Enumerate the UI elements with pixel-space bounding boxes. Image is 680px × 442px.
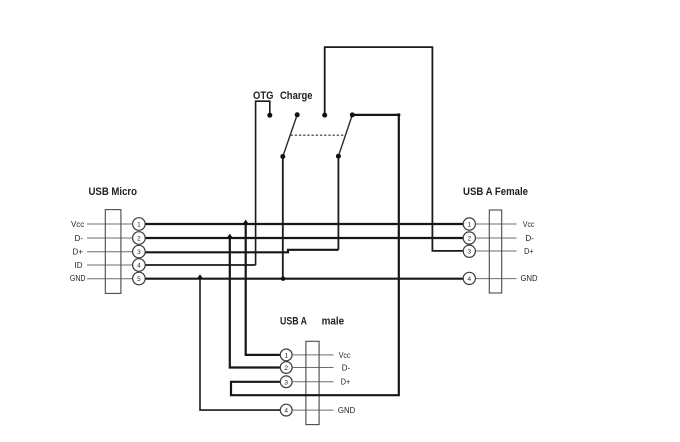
- svg-text:2: 2: [467, 236, 471, 243]
- svg-text:1: 1: [137, 222, 141, 229]
- svg-text:Charge: Charge: [280, 90, 313, 102]
- svg-text:D-: D-: [525, 234, 534, 243]
- svg-text:4: 4: [137, 263, 141, 270]
- svg-text:GND: GND: [338, 406, 356, 415]
- svg-text:USB Micro: USB Micro: [89, 186, 138, 198]
- svg-text:D+: D+: [73, 247, 84, 256]
- svg-text:USB A: USB A: [280, 316, 307, 328]
- svg-text:Vcc: Vcc: [523, 220, 534, 229]
- svg-text:Vcc: Vcc: [71, 220, 84, 229]
- svg-text:D+: D+: [524, 247, 534, 256]
- svg-text:USB A Female: USB A Female: [463, 186, 528, 198]
- svg-text:3: 3: [284, 379, 288, 386]
- svg-text:2: 2: [137, 236, 141, 243]
- svg-text:D+: D+: [341, 377, 351, 386]
- svg-text:D-: D-: [75, 234, 84, 243]
- svg-text:4: 4: [467, 276, 471, 283]
- svg-text:GND: GND: [70, 274, 86, 283]
- svg-text:D-: D-: [342, 364, 351, 373]
- svg-text:male: male: [322, 316, 345, 328]
- svg-text:ID: ID: [75, 261, 83, 270]
- svg-text:OTG: OTG: [253, 90, 274, 102]
- svg-text:3: 3: [467, 249, 471, 256]
- svg-text:1: 1: [284, 352, 288, 359]
- svg-text:1: 1: [467, 222, 471, 229]
- svg-text:2: 2: [284, 365, 288, 372]
- svg-text:3: 3: [137, 249, 141, 256]
- svg-text:5: 5: [137, 276, 141, 283]
- svg-text:4: 4: [284, 408, 288, 415]
- svg-text:GND: GND: [521, 274, 538, 283]
- svg-text:Vcc: Vcc: [339, 351, 351, 360]
